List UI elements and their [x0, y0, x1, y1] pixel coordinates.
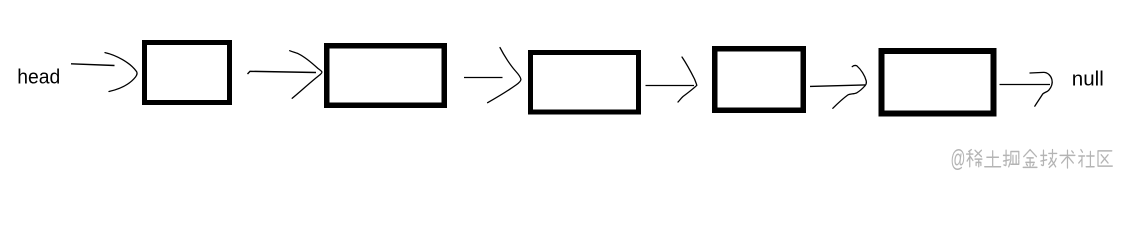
watermark CJK glyph strokes (approximation of CJK community watermark) [967, 150, 1113, 168]
char she [1079, 150, 1094, 167]
char jue [1003, 150, 1018, 167]
wire arrow box5->null arrowhead [1030, 72, 1052, 106]
char qu [1098, 151, 1112, 166]
svg-text:@: @ [951, 146, 966, 172]
wire arrow box3->box4 line [646, 85, 695, 87]
wire arrow box2->box3 arrowhead [488, 48, 521, 103]
node box5 [882, 51, 994, 114]
char tu [985, 151, 1001, 167]
node box4 [715, 49, 804, 111]
wire arrow head->box1 line [71, 64, 115, 66]
wire arrow box1->box2 line [248, 71, 317, 74]
wire arrow head->box1 arrowhead [105, 53, 137, 92]
wire arrow box5->null line [1000, 84, 1051, 86]
node box2 [327, 46, 445, 106]
char shu [1060, 150, 1075, 168]
wire arrow box4->box5 arrowhead [833, 66, 867, 109]
node box3 [531, 53, 639, 113]
char jin [1023, 150, 1037, 168]
svg-text:head: head [17, 67, 60, 89]
wire arrow box2->box3 line [464, 77, 503, 79]
wire arrow box1->box2 arrowhead [290, 51, 322, 99]
wire arrow box3->box4 arrowhead [678, 57, 697, 102]
wire arrow box4->box5 line [810, 85, 865, 87]
svg-text:null: null [1072, 69, 1104, 91]
char ji [1041, 150, 1057, 168]
node box1 [145, 43, 230, 103]
char xi [967, 150, 982, 167]
